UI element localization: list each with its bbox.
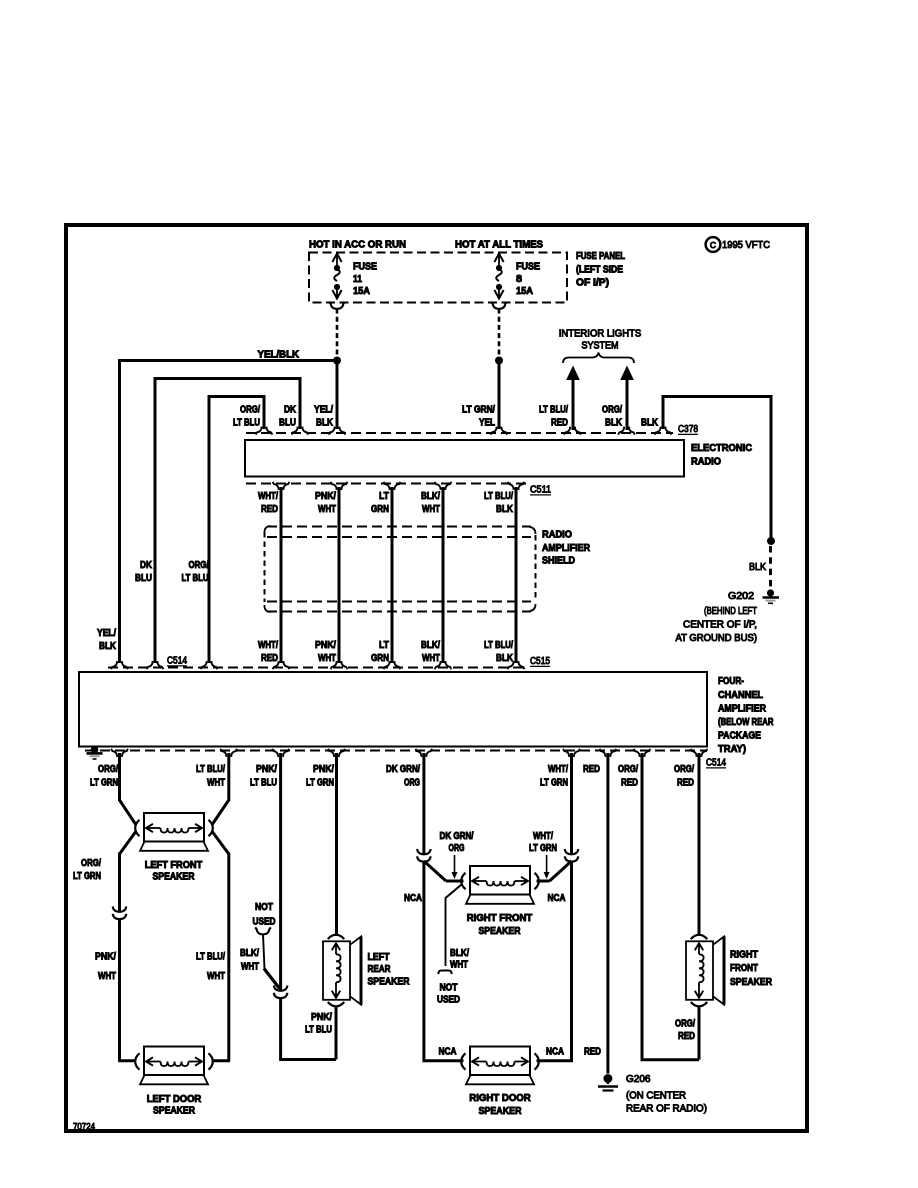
svg-text:ORG: ORG [404,778,420,789]
wire YEL/BLK fused feed (dashed) [336,309,339,358]
svg-text:SPEAKER: SPEAKER [730,977,773,988]
svg-text:BLK/: BLK/ [240,948,259,959]
wire WHT/LT GRN amp run [570,753,573,854]
svg-text:WHT/: WHT/ [258,640,278,651]
not-used stub BLK/WHT (left) [255,927,271,934]
svg-text:ORG/: ORG/ [189,560,209,571]
svg-text:CENTER OF I/P,: CENTER OF I/P, [683,620,757,631]
amp output flares [111,749,128,757]
svg-text:LT BLU/: LT BLU/ [196,764,225,775]
brace interior lights system [563,353,634,364]
svg-text:BLU: BLU [279,418,296,429]
svg-text:LT BLU: LT BLU [182,573,209,584]
svg-text:INTERIOR LIGHTS: INTERIOR LIGHTS [559,329,642,340]
connector C378 dashed line [246,432,673,434]
svg-text:BLK: BLK [496,653,514,664]
svg-text:LEFT DOOR: LEFT DOOR [147,1094,202,1105]
wire LT GRN/YEL fused feed (dashed) [498,309,501,358]
svg-text:BLK/: BLK/ [421,640,440,651]
svg-text:1995 VFTC: 1995 VFTC [722,239,770,251]
svg-text:C378: C378 [678,424,698,435]
svg-text:SPEAKER: SPEAKER [479,1106,523,1117]
svg-text:RED: RED [621,778,638,789]
svg-text:WHT: WHT [318,504,336,515]
svg-text:CHANNEL: CHANNEL [718,690,763,701]
svg-text:PACKAGE: PACKAGE [718,731,761,742]
right front speaker (rear circuit) [686,941,713,1000]
svg-text:PNK/: PNK/ [313,764,334,775]
svg-text:FUSE PANEL: FUSE PANEL [576,251,625,262]
svg-text:YEL: YEL [479,418,495,429]
wire BLK/WHT radio to amp [442,487,445,663]
svg-text:RIGHT DOOR: RIGHT DOOR [469,1093,531,1104]
svg-text:RIGHT: RIGHT [730,950,758,961]
junction dot BLK [767,537,775,545]
svg-text:PNK/: PNK/ [256,764,277,775]
wire ORG/RED return run [641,753,644,1060]
svg-text:15A: 15A [516,286,533,297]
wire LT BLU/WHT below left front speaker [212,832,229,855]
svg-text:WHT: WHT [318,653,336,664]
svg-text:SPEAKER: SPEAKER [153,1106,196,1117]
wire PNK/LT BLU amp run [279,753,282,991]
svg-text:(BEHIND LEFT: (BEHIND LEFT [704,606,757,617]
svg-text:LT GRN/: LT GRN/ [462,405,495,416]
svg-text:C515: C515 [530,656,550,667]
svg-text:ORG/: ORG/ [675,1019,695,1030]
svg-text:DK GRN/: DK GRN/ [440,831,474,842]
wire NCA to right door speaker (right) [570,862,573,1061]
svg-text:LT BLU/: LT BLU/ [484,640,513,651]
svg-text:YEL/: YEL/ [97,628,116,639]
svg-text:WHT/: WHT/ [548,764,568,775]
wire ORG/RED amp to right front speaker top [698,753,701,934]
svg-text:YEL/: YEL/ [314,405,333,416]
wire DK GRN/ORG amp run [422,753,425,854]
svg-text:NCA: NCA [548,893,566,904]
svg-text:11: 11 [353,274,362,285]
wire YEL/BLK drop to radio [336,361,339,430]
svg-text:SPEAKER: SPEAKER [368,977,411,988]
svg-text:FRONT: FRONT [730,963,758,974]
svg-text:OF I/P): OF I/P) [576,278,609,289]
svg-text:LEFT: LEFT [368,952,390,963]
four-channel amplifier box [79,672,707,747]
svg-text:RED: RED [261,653,278,664]
amp input flares [111,661,128,669]
wire PNK/WHT to left door speaker [118,920,121,1061]
svg-text:LT GRN: LT GRN [306,778,334,789]
fuse F8 15A [498,254,500,267]
svg-text:RED: RED [551,418,568,429]
wire ORG/LT GRN amp to left front speaker [118,753,121,801]
svg-text:C511: C511 [530,485,551,496]
svg-text:LT BLU/: LT BLU/ [196,952,225,963]
svg-text:NCA: NCA [439,1047,457,1058]
wire LT BLU/BLK radio to amp [515,487,518,663]
svg-text:FOUR-: FOUR- [718,676,744,687]
svg-text:LT GRN: LT GRN [90,778,118,789]
svg-text:LT: LT [379,640,389,651]
svg-text:PNK/: PNK/ [95,952,116,963]
svg-text:SHIELD: SHIELD [542,556,575,567]
svg-text:ORG/: ORG/ [98,764,118,775]
svg-text:WHT: WHT [241,962,259,973]
svg-text:C514: C514 [167,656,187,667]
svg-text:NOT: NOT [440,983,458,994]
svg-text:FUSE: FUSE [516,262,540,273]
svg-text:SPEAKER: SPEAKER [479,926,522,937]
svg-text:LT BLU/: LT BLU/ [539,405,568,416]
svg-text:WHT: WHT [450,960,468,971]
svg-text:BLK: BLK [99,641,117,652]
svg-text:RED: RED [583,764,600,775]
wire YEL/BLK branch to C514 [120,361,338,664]
arrow to interior lights (LT BLU/RED) [566,366,580,381]
left door speaker [144,1047,204,1076]
wire LT GRN/YEL drop to radio [498,361,501,430]
not-used stub BLK/WHT (right) [446,885,462,899]
inline connector DK GRN/ORG [417,849,431,854]
right door speaker [470,1047,530,1076]
svg-text:RED: RED [584,1047,601,1058]
svg-text:LT BLU: LT BLU [233,418,260,429]
radio output flares C511 [273,482,290,490]
inline connector WHT/LT GRN [565,849,579,854]
svg-text:DK: DK [284,405,297,416]
radio connector flares C378 [256,427,273,435]
svg-text:SPEAKER: SPEAKER [153,872,196,883]
svg-text:LEFT FRONT: LEFT FRONT [145,860,203,871]
ground G206 [603,1074,612,1083]
svg-text:PNK/: PNK/ [315,491,336,502]
svg-text:RADIO: RADIO [691,457,721,468]
svg-text:HOT AT ALL TIMES: HOT AT ALL TIMES [455,240,543,251]
svg-text:ELECTRONIC: ELECTRONIC [691,443,752,454]
svg-text:ORG/: ORG/ [674,764,694,775]
svg-text:ORG/: ORG/ [602,405,622,416]
wire DK GRN/ORG to right front speaker [424,861,446,881]
svg-text:BLK/: BLK/ [450,948,469,959]
fuse F11 output terminal cup [329,302,345,309]
radio amplifier shield (dashed) [267,526,531,528]
svg-text:LT GRN: LT GRN [73,871,101,882]
svg-text:AT GROUND BUS): AT GROUND BUS) [676,633,758,644]
svg-text:G202: G202 [728,591,754,602]
arrow to interior lights (ORG/BLK) [620,366,634,381]
svg-text:DK: DK [140,560,153,571]
wire ORG/LT BLU radio to C514 [209,397,264,664]
svg-text:WHT: WHT [422,504,440,515]
svg-text:LT GRN: LT GRN [540,778,568,789]
svg-text:GRN: GRN [371,504,389,515]
wire WHT/RED radio to amp [280,487,283,663]
svg-text:(BELOW REAR: (BELOW REAR [718,717,774,728]
wire LT BLU/WHT amp to left front speaker [227,753,230,801]
svg-text:RADIO: RADIO [542,530,572,541]
svg-text:LT BLU: LT BLU [250,778,277,789]
svg-text:LT BLU: LT BLU [305,1025,332,1036]
wire WHT/LT GRN to right front speaker [550,861,572,881]
svg-text:(ON CENTER: (ON CENTER [626,1091,686,1102]
left rear speaker [323,941,350,1000]
svg-text:ORG/: ORG/ [618,764,638,775]
svg-text:RED: RED [677,778,694,789]
wire PNK/WHT radio to amp [338,487,341,663]
svg-text:NCA: NCA [546,1047,564,1058]
svg-text:ORG: ORG [449,843,465,854]
svg-text:G206: G206 [626,1074,651,1085]
amp case ground [91,746,99,754]
svg-text:NCA: NCA [404,893,422,904]
wire BLK radio to G202 [663,397,771,540]
svg-text:C: C [710,240,716,250]
svg-text:BLK/: BLK/ [421,491,440,502]
wire RED amp to G206 [606,753,609,1074]
wire PNK/LT GRN amp to left rear speaker [335,753,338,934]
wire DK BLU radio to C514 [155,379,300,664]
diagram border frame [66,225,807,1131]
right front speaker (door circuit) [470,866,530,895]
svg-text:PNK/: PNK/ [315,640,336,651]
wire LT GRN radio to amp [391,487,394,663]
junction dot YEL/BLK [333,357,341,365]
svg-text:REAR OF RADIO): REAR OF RADIO) [626,1104,707,1115]
svg-text:BLK: BLK [496,504,514,515]
svg-text:ORG/: ORG/ [240,405,260,416]
svg-text:LT BLU/: LT BLU/ [484,491,513,502]
svg-text:RED: RED [678,1031,695,1042]
svg-text:FUSE: FUSE [353,262,377,273]
svg-text:(LEFT SIDE: (LEFT SIDE [576,265,623,276]
svg-text:HOT IN ACC OR RUN: HOT IN ACC OR RUN [309,240,406,251]
copyright mark 1995 VFTC [706,237,721,252]
svg-text:15A: 15A [353,286,370,297]
svg-text:YEL/BLK: YEL/BLK [258,350,300,361]
ground G202 [767,589,774,596]
svg-text:BLK: BLK [605,418,623,429]
svg-text:BLK: BLK [641,418,659,429]
svg-text:RIGHT FRONT: RIGHT FRONT [467,913,533,924]
svg-text:C514: C514 [706,758,726,769]
svg-text:ORG/: ORG/ [81,858,101,869]
svg-text:70724: 70724 [73,1122,95,1133]
svg-text:BLK: BLK [316,418,334,429]
electronic radio box [245,440,684,477]
svg-text:USED: USED [437,995,460,1006]
svg-text:GRN: GRN [371,653,389,664]
svg-text:8: 8 [516,274,522,285]
svg-text:AMPLIFIER: AMPLIFIER [542,543,591,554]
connector C511 dashed line [246,483,527,485]
svg-text:WHT: WHT [422,653,440,664]
svg-text:WHT/: WHT/ [258,491,278,502]
fuse F8 output terminal cup [491,302,507,309]
fuse F11 15A [336,254,338,267]
svg-text:WHT: WHT [207,971,225,982]
svg-text:USED: USED [253,917,276,928]
svg-text:SYSTEM: SYSTEM [582,341,619,352]
svg-text:PNK/: PNK/ [311,1012,332,1023]
svg-text:AMPLIFIER: AMPLIFIER [718,704,767,715]
inline connector ORG/LT GRN to PNK/WHT [113,907,127,912]
svg-text:NOT: NOT [255,902,273,913]
connector C514 dashed line (amp bottom) [85,750,707,752]
fuse panel dashed box [309,253,567,303]
svg-text:WHT/: WHT/ [533,831,553,842]
svg-text:BLK: BLK [749,562,766,573]
svg-text:DK GRN/: DK GRN/ [386,764,420,775]
wire ORG/LT GRN below left front speaker [120,832,136,855]
inline connector PNK/LT BLU [274,986,288,991]
svg-text:LT: LT [379,491,389,502]
svg-text:BLU: BLU [135,573,152,584]
wire NCA to right door speaker (left) [422,862,425,1061]
svg-text:LT GRN: LT GRN [529,843,557,854]
svg-text:TRAY): TRAY) [718,744,746,755]
svg-text:REAR: REAR [368,964,392,975]
connector C514/C515 dashed line (amp top) [108,667,527,669]
wire PNK/LT BLU to left rear speaker [279,999,282,1060]
junction dot LT GRN/YEL [495,357,503,365]
svg-text:RED: RED [261,504,278,515]
wire BLK dashed to ground [769,546,772,588]
svg-text:WHT: WHT [98,971,116,982]
svg-text:WHT: WHT [207,778,225,789]
left front speaker [144,813,204,842]
